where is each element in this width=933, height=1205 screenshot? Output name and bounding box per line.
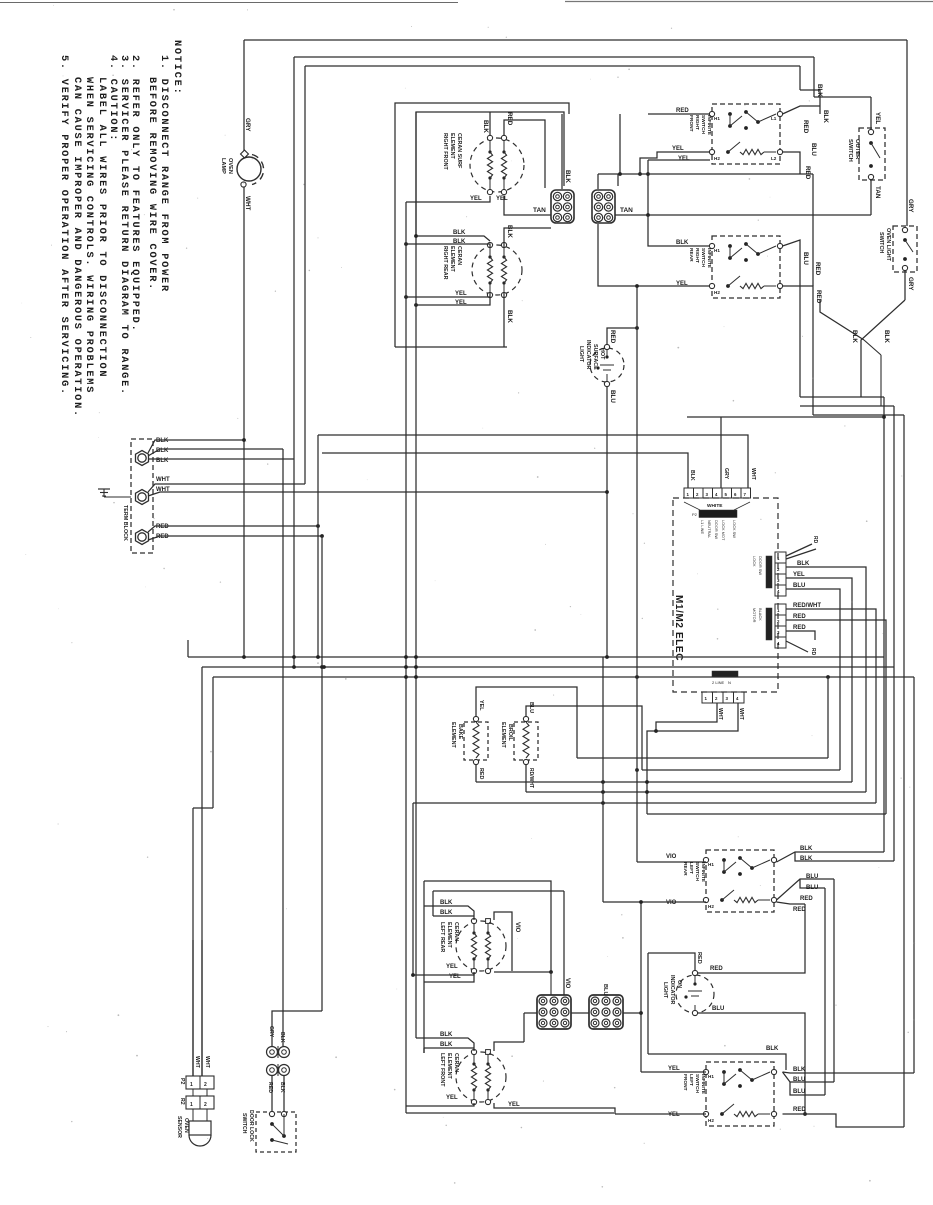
svg-text:BLK: BLK (506, 225, 513, 238)
svg-text:BLU: BLU (802, 252, 809, 265)
control board M1/M2 ELEC (673, 498, 778, 692)
wire to door lock sw (271, 1076, 273, 1113)
wire BLK rr down (503, 293, 505, 347)
wire right trio 2 (800, 405, 894, 407)
svg-text:2: 2 (204, 1082, 207, 1088)
wire RED lf (783, 1114, 905, 1127)
wire M1 feed GRY (720, 417, 722, 488)
svg-text:TERM BLOCK: TERM BLOCK (122, 505, 128, 541)
svg-text:L1: L1 (771, 116, 777, 121)
svg-text:GRY: GRY (268, 1026, 274, 1038)
wire blk lf2 (424, 1047, 474, 1049)
wire long left vertical 2 (293, 57, 295, 667)
svg-text:BLK: BLK (822, 110, 829, 123)
wire long center-left vertical (405, 202, 407, 1113)
wire drop to outer switch feed (813, 57, 815, 97)
svg-text:YEL: YEL (668, 1066, 680, 1072)
small text above bottom connector (712, 671, 738, 677)
svg-text:M1/M2 ELEC: M1/M2 ELEC (673, 595, 684, 661)
wire YEL rr 1 (406, 293, 490, 297)
svg-text:ELEMENT: ELEMENT (500, 722, 506, 748)
wire blu bottom (698, 1013, 806, 1114)
wire to outer switch top (814, 96, 871, 98)
wire long run above M1 (687, 416, 884, 418)
wire YEL 2 (648, 159, 710, 161)
wire lf top right (494, 1042, 524, 1051)
wire BLK from board (786, 567, 866, 792)
svg-text:BLK: BLK (506, 310, 513, 323)
wire VIO h2 lr (603, 901, 706, 903)
wire lamp top (243, 40, 245, 151)
wire into conn top (597, 174, 599, 189)
svg-text:BLU: BLU (712, 1006, 724, 1012)
svg-text:YEL: YEL (672, 146, 684, 152)
svg-text:LEFT FRONT: LEFT FRONT (439, 1053, 445, 1087)
wire stair 782 (476, 781, 852, 783)
svg-text:LIGHT: LIGHT (578, 346, 584, 363)
wire BLK lr out (777, 852, 885, 862)
svg-text:BLU: BLU (806, 885, 818, 891)
wire WHT bottom 2 (647, 703, 738, 814)
wire YEL from board (786, 578, 852, 782)
svg-text:H2: H2 (714, 156, 720, 161)
wire right tan top feed (617, 174, 619, 186)
wire v641 vio net (640, 902, 642, 1072)
svg-text:FRONT: FRONT (682, 1074, 688, 1091)
svg-text:OUTER: OUTER (854, 139, 860, 160)
wire WHT 2 long (148, 492, 607, 496)
svg-text:RIGHT: RIGHT (694, 248, 700, 263)
svg-text:SWITCH: SWITCH (700, 115, 706, 134)
svg-text:BLK: BLK (800, 856, 813, 862)
wire crossing X (861, 300, 905, 397)
svg-text:WHT: WHT (204, 1056, 210, 1069)
wire left long vertical BLK feed (282, 449, 284, 1046)
svg-text:CERAN: CERAN (453, 922, 459, 941)
svg-text:SWITCH: SWITCH (847, 139, 853, 162)
svg-text:FRONT: FRONT (688, 115, 694, 132)
svg-text:OVEN: OVEN (183, 1118, 189, 1133)
svg-text:LOCK MOT: LOCK MOT (721, 520, 726, 541)
svg-text:BLU: BLU (609, 390, 616, 403)
wire BLU lr (777, 879, 835, 900)
svg-text:RIGHT REAR: RIGHT REAR (442, 246, 448, 280)
svg-text:BEFORE REMOVING WIRE COVER.: BEFORE REMOVING WIRE COVER. (146, 77, 158, 291)
infinite switch left front (706, 1062, 774, 1126)
svg-text:YEL: YEL (478, 700, 484, 711)
connector block left (537, 995, 571, 1029)
wire yel lf1 (406, 1103, 474, 1106)
connector R2 (186, 1096, 214, 1109)
bake element (464, 722, 488, 760)
wire jog (800, 89, 820, 91)
svg-text:DOOR LOCK: DOOR LOCK (248, 1110, 254, 1142)
svg-text:H2: H2 (714, 290, 720, 295)
svg-text:WHT: WHT (750, 468, 756, 481)
svg-text:LEFT REAR: LEFT REAR (439, 922, 445, 952)
svg-text:RD: RD (810, 648, 816, 656)
svg-text:RED: RED (815, 290, 822, 304)
wire v 305 (304, 66, 306, 484)
wire BLK lf out (783, 1072, 915, 1073)
svg-text:YEL: YEL (496, 196, 508, 202)
wire YEL to H2 (640, 152, 710, 174)
svg-text:CERAN SURF: CERAN SURF (456, 133, 462, 169)
svg-text:YEL: YEL (874, 112, 881, 124)
wire v648 (647, 953, 649, 1054)
svg-text:YEL: YEL (668, 1112, 680, 1118)
wire stair 814 (647, 813, 886, 815)
svg-text:BLK: BLK (156, 438, 169, 444)
svg-text:BLK: BLK (793, 1067, 806, 1073)
svg-text:YEL: YEL (678, 156, 690, 162)
on indicator light (676, 975, 714, 1013)
wire drop from right-rear switch L1 (799, 268, 801, 397)
connector door sw (775, 552, 786, 563)
wire red top indicator up (648, 953, 695, 971)
svg-text:BLK: BLK (851, 330, 858, 343)
svg-text:YEL: YEL (793, 572, 805, 578)
svg-text:CERAN: CERAN (456, 246, 462, 265)
svg-text:P2: P2 (179, 1078, 185, 1084)
wire right to conn (494, 971, 551, 973)
svg-text:RED: RED (793, 625, 806, 631)
wire sensor 1 (192, 940, 194, 1076)
svg-text:WHT: WHT (244, 196, 251, 210)
svg-text:WHT: WHT (156, 477, 170, 483)
connector P2 (186, 1076, 214, 1089)
svg-text:INFINITE: INFINITE (706, 248, 712, 269)
wire RED 1 (148, 526, 318, 532)
wire bottom long (406, 1112, 614, 1114)
svg-text:LABEL ALL WIRES PRIOR TO DISCO: LABEL ALL WIRES PRIOR TO DISCONNECTION (96, 77, 108, 378)
svg-text:OVEN: OVEN (227, 158, 233, 174)
svg-text:RED: RED (793, 1107, 806, 1113)
svg-text:ELEMENT: ELEMENT (449, 133, 455, 159)
wire v413 (412, 803, 414, 975)
wire drop right (799, 66, 801, 90)
svg-text:ELEMENT: ELEMENT (449, 246, 455, 272)
oven lamp (237, 157, 261, 181)
connector block right (589, 995, 623, 1029)
wire sensor 2 (201, 940, 203, 1076)
wire L2 out (783, 152, 801, 174)
svg-text:WHT: WHT (717, 708, 723, 721)
wire rd diag (786, 641, 808, 652)
wire BLK rr 1 (416, 236, 490, 241)
wire v825 blu2 (824, 888, 826, 1095)
wire v318 (317, 435, 319, 657)
wire RED 2 (148, 536, 322, 540)
broil element (514, 722, 538, 760)
svg-text:TAN: TAN (533, 207, 546, 214)
svg-text:ELEMENT: ELEMENT (446, 1053, 452, 1079)
wire jog (193, 807, 213, 809)
svg-text:BLU: BLU (793, 583, 805, 589)
outer switch (859, 128, 885, 180)
wire RED from board (786, 620, 886, 814)
wire v637 (636, 286, 638, 862)
svg-text:1: 1 (190, 1082, 193, 1088)
wire yel h1 lf (641, 1071, 706, 1073)
wire drop to L1 right front (819, 90, 821, 114)
wire broil top (526, 706, 642, 770)
wire bus2 left end to sensor (201, 667, 203, 1076)
svg-text:NEUTRAL: NEUTRAL (707, 520, 712, 539)
wire top run 3 (305, 65, 800, 67)
wire long right vertical A (883, 397, 885, 852)
wire top run 1 (244, 39, 907, 41)
svg-text:LEFT: LEFT (688, 862, 694, 874)
wire stair 792 (526, 791, 866, 793)
extend (423, 1048, 425, 1053)
svg-text:RED: RED (710, 966, 723, 972)
wire box lr top2 (433, 890, 564, 892)
svg-text:GRY: GRY (907, 277, 914, 291)
svg-text:1. DISCONNECT RANGE FROM POWER: 1. DISCONNECT RANGE FROM POWER (158, 55, 170, 293)
wire L1 out rr (783, 240, 801, 268)
svg-text:BLK: BLK (816, 84, 823, 97)
svg-text:RED: RED (156, 524, 169, 530)
svg-text:RIGHT: RIGHT (694, 115, 700, 130)
wire v834 blu (833, 879, 835, 1082)
wire BLK lf feed (648, 1054, 786, 1070)
wire between conns (571, 1012, 589, 1014)
wire VIO h1 lr (637, 861, 706, 863)
ceran element left rear (456, 921, 506, 971)
svg-text:1: 1 (190, 1102, 193, 1108)
wire v424 (423, 881, 425, 1053)
svg-text:RED: RED (793, 614, 806, 620)
connector plug TAN right (592, 190, 615, 223)
wire WHT 1 (148, 484, 305, 492)
infinite switch left rear (706, 850, 774, 912)
svg-text:BLK: BLK (279, 1032, 285, 1043)
svg-text:CERAN: CERAN (453, 1053, 459, 1072)
wire BLK rr right (504, 228, 551, 247)
svg-text:WHITE: WHITE (707, 503, 723, 509)
wire BLK 1 (148, 440, 244, 453)
wire bus 1 (188, 656, 884, 658)
svg-text:BLK: BLK (766, 1046, 779, 1052)
svg-text:H2: H2 (708, 904, 714, 909)
svg-text:SWITCH: SWITCH (241, 1113, 247, 1134)
wire BLK to element (489, 112, 491, 136)
wire bus 2 (202, 666, 894, 668)
svg-text:BLK: BLK (440, 1032, 453, 1038)
wire right trio 1 (800, 396, 884, 398)
svg-text:5. VERIFY PROPER OPERATION AFT: 5. VERIFY PROPER OPERATION AFTER SERVICI… (58, 55, 70, 396)
svg-text:CAN CAUSE IMPROPER AND DANGERO: CAN CAUSE IMPROPER AND DANGEROUS OPERATI… (71, 77, 83, 418)
svg-text:RIGHT FRONT: RIGHT FRONT (442, 133, 448, 171)
wire bake top (476, 687, 577, 758)
svg-text:BLK: BLK (440, 900, 453, 906)
wire into left conn (524, 1012, 537, 1014)
ground symbol (104, 496, 131, 498)
svg-text:SENSOR: SENSOR (176, 1116, 182, 1138)
svg-text:R2: R2 (179, 1098, 185, 1105)
svg-text:SWITCH: SWITCH (694, 862, 700, 881)
wire RED 3 (786, 631, 815, 640)
svg-text:GRY: GRY (244, 118, 251, 132)
wire bus1 left end (187, 640, 189, 657)
svg-text:VIO: VIO (514, 922, 520, 933)
wire blk lr1 (424, 906, 474, 920)
svg-text:BLK: BLK (689, 470, 695, 481)
wire yel h2 lf (615, 1113, 706, 1115)
wire bake bottom (475, 765, 477, 783)
connector lock sw (775, 604, 786, 615)
svg-text:ELEMENT: ELEMENT (446, 922, 452, 948)
svg-text:N: N (728, 680, 731, 685)
svg-text:BLK: BLK (453, 230, 466, 236)
svg-text:HOT: HOT (599, 348, 605, 360)
scan artifact top edge (0, 2, 458, 4)
wire RED run (648, 113, 710, 115)
svg-text:BLU: BLU (793, 1089, 805, 1095)
infinite switch right rear (712, 236, 780, 298)
svg-text:BLK: BLK (564, 170, 571, 183)
svg-text:BLACK: BLACK (758, 608, 763, 621)
svg-text:SWITCH: SWITCH (878, 232, 884, 253)
svg-text:VIO: VIO (666, 854, 677, 860)
door lock switch (256, 1112, 296, 1152)
svg-text:RD: RD (812, 536, 818, 544)
svg-text:SWITCH: SWITCH (694, 1074, 700, 1093)
svg-text:RED: RED (814, 262, 821, 276)
wire hot surface top (607, 328, 637, 345)
svg-text:RED: RED (478, 768, 484, 779)
wire broil bottom (525, 765, 527, 793)
wire stair 758 (577, 757, 828, 759)
wire BLK right rear H1 (648, 215, 710, 246)
svg-text:YEL: YEL (446, 964, 458, 970)
svg-text:BROIL: BROIL (507, 724, 513, 741)
wire blk lr2 (433, 915, 474, 917)
svg-text:YEL: YEL (446, 1095, 458, 1101)
svg-text:WHT: WHT (194, 1056, 200, 1069)
wire stair 770 (642, 769, 840, 771)
svg-text:BLU: BLU (528, 702, 534, 713)
wire drop from right-rear switch L2 (812, 299, 814, 415)
svg-text:YEL: YEL (470, 196, 482, 202)
svg-text:H1: H1 (714, 248, 720, 253)
wire box bottom (395, 346, 507, 348)
wire vio drop (563, 891, 565, 995)
wire out right conn 2 (623, 1012, 641, 1014)
svg-text:H1: H1 (708, 1074, 714, 1079)
wire outer switch top lead (870, 97, 872, 130)
svg-text:REAR: REAR (682, 862, 688, 876)
wire RED riser (619, 114, 621, 174)
wire YEL rr 2 (416, 297, 490, 305)
svg-text:BLU: BLU (806, 874, 818, 880)
svg-text:H2: H2 (708, 1118, 714, 1123)
wire stair 758 riser (827, 677, 829, 758)
svg-text:ELEMENT: ELEMENT (450, 722, 456, 748)
svg-text:BLK: BLK (440, 1042, 453, 1048)
wire drop (647, 160, 649, 215)
svg-text:BAKE: BAKE (457, 724, 463, 740)
svg-text:H1: H1 (708, 862, 714, 867)
wire long TAN run (615, 214, 871, 216)
wire yel lf2 long (494, 1103, 615, 1114)
wire v322 long to door lock (321, 536, 323, 1011)
ceran surf element right front (470, 138, 524, 192)
wire down to sensor (192, 808, 194, 1076)
svg-text:BLK: BLK (797, 561, 810, 567)
svg-text:INFINITE: INFINITE (700, 862, 706, 883)
svg-text:NOTICE:: NOTICE: (171, 40, 183, 96)
svg-text:RED: RED (609, 330, 616, 344)
wire BLK lr out2 (795, 852, 894, 861)
svg-text:BLU: BLU (793, 1077, 805, 1083)
ceran element right rear (472, 245, 522, 295)
wire bus 3 (213, 676, 914, 678)
oven light switch (893, 226, 917, 272)
wire oven light sw bottom (904, 271, 906, 301)
wire blk lf1 (416, 1038, 474, 1051)
wire BLU lf (783, 1072, 835, 1082)
svg-text:2 LINE: 2 LINE (712, 680, 725, 685)
svg-text:DOOR SW: DOOR SW (758, 556, 763, 575)
wire yel lr1 (413, 972, 474, 975)
svg-text:ON: ON (676, 980, 682, 988)
wire YEL 2 (504, 196, 551, 215)
svg-text:WHT: WHT (738, 708, 744, 721)
wire YEL right rear H2 (598, 224, 710, 286)
wire v603 (602, 657, 604, 902)
svg-text:LAMP: LAMP (220, 158, 226, 174)
wire YEL left (406, 196, 490, 202)
svg-text:INFINITE: INFINITE (700, 1074, 706, 1095)
svg-text:GRY: GRY (723, 468, 729, 480)
wire WHT bottom 1 (656, 703, 717, 731)
wire outer switch bottom to TAN run (870, 180, 872, 216)
wire long RED run mid (598, 173, 813, 175)
infinite switch right front (712, 104, 780, 164)
wire rd 2 (786, 549, 816, 559)
svg-text:BLK: BLK (883, 330, 890, 343)
connector P1 top (684, 488, 694, 498)
wire stair 804 (413, 802, 876, 804)
svg-text:SURFACE: SURFACE (592, 344, 598, 370)
wire BLK rr 2 (406, 244, 490, 247)
wire inner box left vertical long (415, 112, 417, 1038)
svg-text:SWITCH: SWITCH (700, 248, 706, 267)
svg-text:INDICATOR: INDICATOR (585, 340, 591, 370)
wire top run 2 (294, 56, 814, 58)
ceran element left front (456, 1052, 506, 1102)
wire L1 out (783, 106, 821, 114)
wire long right vertical D (913, 677, 915, 1073)
svg-text:WHEN SERVICING CONTROLS. WIRIN: WHEN SERVICING CONTROLS. WIRING PROBLEMS (83, 77, 95, 394)
svg-text:TAN: TAN (620, 207, 633, 214)
wire vio lr (494, 912, 512, 971)
svg-text:BLU: BLU (810, 143, 817, 156)
wire red indicator right (698, 904, 806, 973)
svg-text:LOCK SW: LOCK SW (732, 520, 737, 538)
svg-text:LIGHT: LIGHT (662, 982, 668, 999)
svg-text:BLK: BLK (482, 120, 489, 133)
svg-text:RED: RED (800, 896, 813, 902)
oven sensor probe (192, 1109, 194, 1121)
wire RED/WHT from board (786, 609, 876, 803)
wire bus3 left end (212, 677, 214, 808)
svg-text:RED: RED (802, 120, 809, 134)
wire BLK 2 (148, 449, 283, 456)
svg-text:LOCK: LOCK (752, 556, 757, 567)
